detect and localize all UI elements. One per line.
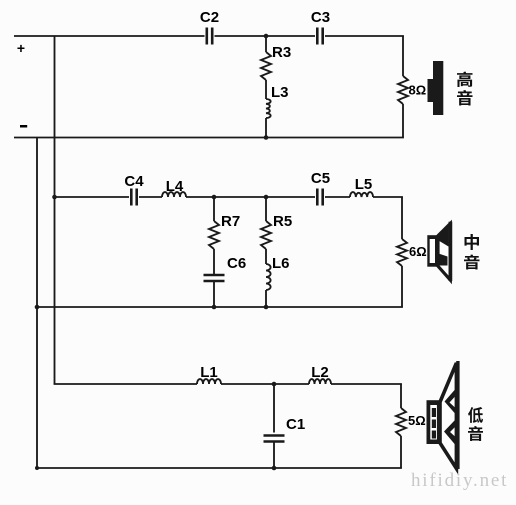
wire L2 to bottom-right corner [331,383,402,385]
label 高 (tweeter channel, char 1) [457,71,473,87]
wire vertical bus from − rail down to bottom return [36,138,38,469]
wire woofer feed corner [54,383,197,385]
wire right vertical to 5&#937; resistor [400,384,402,408]
svg-text:+: + [17,40,25,56]
wire 8&#937; to − rail [402,104,404,138]
wire 5&#937; to bottom return rail [400,436,402,468]
capacitor C4 [130,189,133,206]
inductor L1 [197,379,221,384]
svg-text:C5: C5 [311,170,330,187]
svg-text:8Ω: 8Ω [409,82,427,97]
svg-text:C3: C3 [311,9,330,26]
wire node B to node C [214,196,266,198]
svg-text:L1: L1 [200,364,218,381]
node L3/− rail junction [264,135,269,140]
resistor 5&#937; (woofer load) [396,408,406,436]
wire + rail left segment [14,35,205,37]
label 音 (tweeter channel, char 2) [457,90,472,106]
wire node D to L2 [274,383,309,385]
wire C5 to L5 [325,196,350,198]
node B junction [212,195,217,200]
speaker symbol midrange [427,222,450,281]
resistor R7 [209,221,219,249]
wire right vertical to 6&#937; resistor [401,197,403,239]
wire C2 to node A [215,35,267,37]
svg-text:6Ω: 6Ω [409,244,427,259]
label 音 (woofer channel, char 2) [468,426,483,441]
svg-text:C1: C1 [286,416,305,433]
label 音 (midrange channel, char 2) [464,255,479,270]
svg-text:C4: C4 [124,173,144,190]
node bottom return corner [35,466,39,470]
wire L4 to node B [186,196,214,198]
wire C3 to top-right corner [325,35,404,37]
wire node A to C3 [266,35,315,37]
terminal − label [20,125,27,128]
inductor L5 [350,192,373,197]
svg-text:L3: L3 [271,84,289,101]
svg-text:C2: C2 [200,9,219,26]
svg-text:L6: L6 [272,255,290,272]
resistor R3 [261,52,271,80]
wire node A to R3 [265,36,267,52]
resistor 8&#937; (tweeter load) [398,76,408,104]
capacitor C2 [206,28,209,45]
label 中 (midrange channel, char 1) [465,234,479,250]
wire node C to R5 [265,197,267,221]
node mid return tap [35,305,40,310]
wire R5 to L6 [265,249,267,264]
wire − rail [14,137,404,139]
svg-text:L5: L5 [355,176,373,193]
svg-text:L4: L4 [166,178,184,195]
inductor L4 [162,192,186,197]
node D junction [272,382,277,387]
svg-text:C6: C6 [227,255,246,272]
svg-text:hifidiy.net: hifidiy.net [411,470,508,491]
capacitor C5 [316,189,319,206]
resistor R5 [261,221,271,249]
resistor 6&#937; (midrange load) [397,239,407,266]
wire node B to R7 [213,197,215,221]
svg-text:5Ω: 5Ω [408,413,426,428]
svg-text:R3: R3 [272,44,291,61]
wire L1 to node D [221,383,274,385]
capacitor C6 [204,274,225,277]
node A junction [264,34,269,39]
wire node C to C5 [266,196,315,198]
node C6/mid-return junction [212,305,217,310]
wire L3 to − rail [265,118,267,138]
wire C1 to bottom return rail [273,442,275,469]
capacitor C1 [264,434,285,437]
label 低 (woofer channel, char 1) [468,407,483,423]
wire C4 to L4 [139,196,162,198]
wire node D to C1 [273,384,275,433]
svg-text:L2: L2 [311,364,329,381]
wire right vertical to 8&#937; resistor [402,36,404,76]
speaker symbol tweeter (dome) [433,61,443,115]
node C junction [264,195,269,200]
inductor L6 [266,264,271,290]
inductor L2 [309,379,331,384]
svg-text:R7: R7 [221,213,240,230]
speaker symbol woofer [427,361,458,469]
wire R3 to L3 [265,80,267,99]
wire 6&#937; to mid return rail [401,266,403,307]
inductor L3 [266,99,271,118]
wire R7 to C6 [213,249,215,275]
capacitor C3 [316,28,319,45]
wire mid return rail [37,306,403,308]
node mid feed tap [52,195,57,200]
wire L5 to mid-right corner [373,196,403,198]
node L6/mid-return junction [264,305,269,310]
node C1/bottom-return junction [272,466,277,471]
wire mid feed to C4 [55,196,130,198]
wire bottom return rail [36,467,402,469]
wire L6 to mid return rail [265,290,267,307]
wire C6 to mid return rail [213,281,215,307]
wire vertical bus from + rail down to woofer feed [54,36,56,384]
svg-text:R5: R5 [273,213,292,230]
